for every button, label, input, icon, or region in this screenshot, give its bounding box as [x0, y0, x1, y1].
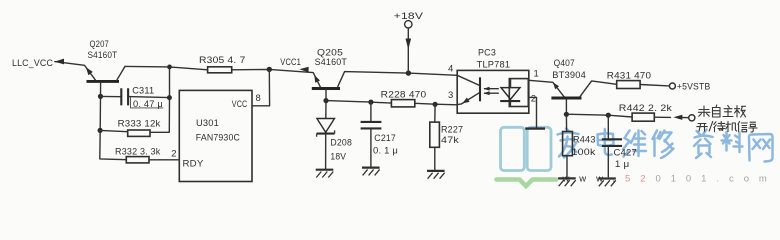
svg-text:C311: C311 [132, 86, 154, 97]
svg-text:PC3: PC3 [478, 48, 496, 59]
svg-text:3: 3 [448, 90, 453, 101]
svg-text:R333 12k: R333 12k [118, 119, 161, 130]
svg-text:2: 2 [531, 94, 536, 105]
svg-text:+5VSTB: +5VSTB [677, 82, 711, 93]
svg-text:Q407: Q407 [554, 58, 575, 69]
svg-text:RDY: RDY [183, 159, 204, 170]
svg-text:VCC1: VCC1 [280, 57, 301, 68]
svg-text:R442 2. 2k: R442 2. 2k [619, 103, 672, 114]
svg-text:R305 4. 7: R305 4. 7 [199, 55, 246, 66]
svg-text:0. 1 μ: 0. 1 μ [373, 146, 398, 157]
svg-text:R228 470: R228 470 [381, 90, 427, 101]
svg-text:LLC_VCC: LLC_VCC [12, 58, 53, 69]
svg-text:VCC: VCC [232, 99, 248, 110]
svg-text:S4160T: S4160T [88, 50, 118, 61]
svg-text:www.520101.com: www.520101.com [562, 173, 777, 184]
svg-text:R431 470: R431 470 [607, 71, 651, 82]
svg-text:100k: 100k [572, 147, 596, 158]
svg-text:2: 2 [171, 149, 176, 160]
svg-text:8: 8 [256, 93, 261, 104]
svg-text:BT3904: BT3904 [552, 70, 586, 81]
svg-text:1 μ: 1 μ [615, 159, 630, 170]
svg-text:0. 47 μ: 0. 47 μ [133, 99, 163, 110]
svg-text:18V: 18V [330, 152, 346, 163]
svg-text:C217: C217 [374, 133, 396, 144]
svg-text:D208: D208 [330, 138, 352, 149]
svg-text:C427: C427 [614, 148, 638, 159]
svg-text:1: 1 [534, 69, 539, 80]
svg-text:TLP781: TLP781 [477, 60, 511, 71]
svg-text:U301: U301 [196, 118, 219, 129]
svg-text:47k: 47k [441, 135, 459, 146]
svg-text:S4160T: S4160T [315, 57, 348, 68]
svg-text:FAN7930C: FAN7930C [196, 133, 240, 144]
svg-text:R443: R443 [573, 135, 596, 146]
svg-text:+18V: +18V [394, 11, 424, 22]
svg-text:R227: R227 [441, 125, 463, 136]
svg-text:R332 3. 3k: R332 3. 3k [115, 147, 161, 158]
svg-text:4: 4 [448, 63, 453, 74]
svg-text:Q207: Q207 [90, 39, 110, 50]
